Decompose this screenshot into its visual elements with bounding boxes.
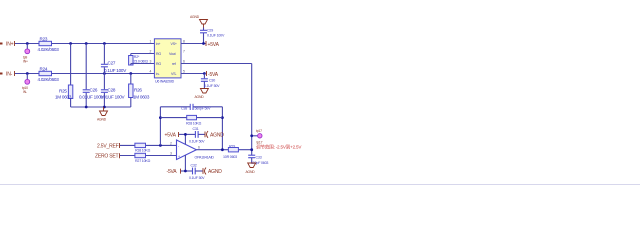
svg-text:AGND: AGND	[246, 170, 256, 174]
ground AGND below C33	[246, 163, 256, 174]
capacitor C31	[189, 127, 205, 143]
svg-text:C38: C38	[181, 107, 187, 111]
power +5VA pin8	[206, 41, 220, 48]
svg-text:C31: C31	[193, 127, 199, 131]
resistor RG R21 (gain)	[129, 54, 155, 66]
svg-text:R23: R23	[40, 37, 48, 42]
node tp17	[250, 134, 253, 137]
node rail C26	[85, 106, 88, 109]
svg-text:0.1UF 100V: 0.1UF 100V	[104, 68, 127, 73]
svg-text:AGND: AGND	[190, 15, 200, 19]
wire pin8 row	[181, 43, 206, 45]
op-amp U6 INA826ID	[150, 39, 186, 84]
node IN+ tp	[26, 42, 29, 45]
node output feedback	[221, 148, 224, 151]
capacitor C28	[100, 74, 126, 108]
svg-text:-5VA: -5VA	[167, 169, 178, 175]
svg-text:4.02K/0603: 4.02K/0603	[38, 47, 60, 52]
node opamp V-	[184, 170, 187, 173]
ground AGND rail	[97, 107, 108, 122]
svg-text:1M 0603: 1M 0603	[133, 95, 150, 100]
port ZERO SET	[95, 153, 120, 159]
resistor R23	[38, 37, 60, 53]
node C29	[202, 42, 205, 45]
node C26 top	[85, 42, 88, 45]
svg-text:4: 4	[150, 70, 152, 74]
svg-text:R25: R25	[59, 89, 67, 94]
node feedback left	[159, 116, 162, 119]
resistor R27	[135, 153, 151, 163]
resistor R38	[135, 143, 151, 152]
svg-text:C33: C33	[256, 156, 262, 160]
svg-text:IN-: IN-	[23, 90, 27, 94]
feedback rails	[160, 107, 222, 150]
node opamp V+	[184, 133, 187, 136]
capacitor C32	[189, 163, 205, 179]
svg-text:2: 2	[150, 50, 152, 54]
wire ZERO SET row	[120, 155, 177, 157]
power +5VA opamp rail	[165, 132, 196, 139]
svg-text:OPA1641AID: OPA1641AID	[195, 156, 215, 160]
svg-text:C26: C26	[90, 88, 98, 93]
svg-text:C27: C27	[108, 61, 116, 66]
node output R29	[250, 148, 253, 151]
capacitor C30	[201, 74, 220, 89]
svg-text:0.1UF 50V: 0.1UF 50V	[204, 84, 220, 88]
resistor R29	[223, 145, 238, 159]
power -5VA opamp rail	[167, 169, 193, 176]
svg-text:ref: ref	[172, 62, 176, 66]
power -5VA pin5	[207, 71, 219, 78]
svg-text:2.5V_REF: 2.5V_REF	[97, 143, 119, 149]
node IN- tp	[26, 72, 29, 75]
svg-text:IN+: IN+	[6, 42, 14, 48]
ground AGND above C29	[190, 15, 208, 28]
svg-text:1: 1	[150, 40, 152, 44]
svg-text:0.1UF 50V: 0.1UF 50V	[189, 176, 205, 180]
wire IN- row left	[15, 73, 39, 75]
resistor R24	[38, 67, 60, 83]
wire opamp output row	[196, 149, 251, 151]
svg-text:U6 INA826ID: U6 INA826ID	[155, 80, 175, 84]
svg-text:IN-: IN-	[6, 72, 13, 78]
resistor R28	[160, 115, 222, 125]
svg-text:AGND: AGND	[210, 133, 224, 139]
resistor R26	[129, 74, 150, 108]
svg-text:3: 3	[170, 152, 172, 156]
capacitor C33	[248, 155, 268, 165]
svg-text:调节范围: -2.5V到+2.5V: 调节范围: -2.5V到+2.5V	[256, 144, 302, 151]
svg-text:10R 0603: 10R 0603	[223, 155, 237, 159]
svg-text:C29: C29	[207, 29, 213, 33]
svg-text:AGND: AGND	[208, 169, 222, 175]
svg-text:4.02K/0603: 4.02K/0603	[38, 77, 60, 82]
port IN-	[0, 71, 15, 78]
svg-text:R27 10KΩ: R27 10KΩ	[135, 159, 151, 163]
ground AGND port C31	[205, 131, 224, 139]
svg-text:tp17: tp17	[256, 129, 262, 133]
ground AGND port C32	[203, 168, 222, 176]
node pin2 feedback	[159, 144, 162, 147]
capacitor C38 560pF	[181, 104, 211, 111]
svg-text:VS+: VS+	[171, 42, 177, 46]
svg-text:-5VA: -5VA	[208, 72, 219, 78]
svg-text:8: 8	[183, 40, 185, 44]
svg-text:R26: R26	[134, 88, 142, 93]
svg-text:+5VA: +5VA	[208, 42, 220, 48]
test point tp10	[22, 74, 30, 95]
wire IN+ row left	[15, 43, 39, 45]
capacitor C29	[200, 28, 225, 44]
wire IN+ row to IC	[52, 43, 155, 45]
sheet rule	[0, 184, 640, 186]
svg-text:C30: C30	[209, 79, 215, 83]
resistor R25	[55, 44, 73, 108]
svg-text:+: +	[178, 155, 180, 159]
svg-text:2: 2	[170, 141, 172, 145]
svg-text:R2*: R2*	[134, 55, 140, 59]
svg-text:560pF 50V: 560pF 50V	[195, 107, 212, 111]
svg-text:5: 5	[183, 70, 185, 74]
svg-text:ZERO SET: ZERO SET	[95, 154, 119, 160]
wire IN- row to IC	[52, 73, 155, 75]
svg-text:Vout: Vout	[169, 52, 176, 56]
wire pin6 ref to opamp output node	[181, 64, 252, 156]
svg-text:23.0 0603: 23.0 0603	[134, 60, 148, 64]
svg-text:3: 3	[150, 60, 152, 64]
svg-text:0.1UF 100V: 0.1UF 100V	[207, 34, 225, 38]
port 2.5V_REF	[97, 143, 120, 149]
svg-text:C28: C28	[108, 88, 116, 93]
svg-text:+5VA: +5VA	[165, 133, 177, 139]
test point tp9	[23, 44, 30, 64]
svg-text:0.01UF 100V: 0.01UF 100V	[100, 95, 126, 100]
svg-text:AGND: AGND	[97, 118, 107, 122]
capacitor C27	[101, 44, 127, 74]
svg-text:7: 7	[183, 50, 185, 54]
node feedback right	[221, 116, 224, 119]
svg-text:0.1UF 50V: 0.1UF 50V	[189, 139, 205, 143]
node rail C28	[103, 106, 106, 109]
ground AGND below C30	[195, 89, 209, 100]
node R26 top	[129, 72, 132, 75]
wire 2.5V_REF row	[120, 144, 177, 146]
svg-text:1M 0603: 1M 0603	[55, 95, 72, 100]
node R25 top	[69, 42, 72, 45]
svg-text:6: 6	[183, 60, 185, 64]
wire pin5 row	[181, 73, 206, 75]
svg-text:R28 10KΩ: R28 10KΩ	[186, 122, 202, 126]
svg-text:6: 6	[198, 146, 200, 150]
wire AGND rail	[71, 106, 131, 108]
op-amp U8 OPA1641AID	[170, 134, 214, 171]
test point tp17	[252, 129, 263, 145]
port IN+	[0, 41, 15, 48]
svg-text:R24: R24	[40, 67, 48, 72]
svg-text:IN+: IN+	[23, 60, 28, 64]
svg-text:C32: C32	[191, 163, 197, 167]
svg-text:AGND: AGND	[195, 95, 205, 99]
svg-text:R38 10KΩ: R38 10KΩ	[135, 149, 151, 153]
node C27 top	[103, 42, 106, 45]
node C30	[203, 72, 206, 75]
capacitor C26	[79, 44, 105, 108]
node C27 bottom	[103, 72, 106, 75]
svg-text:RG: RG	[156, 62, 161, 66]
svg-text:RG: RG	[156, 52, 161, 56]
svg-text:in+: in+	[156, 42, 160, 46]
